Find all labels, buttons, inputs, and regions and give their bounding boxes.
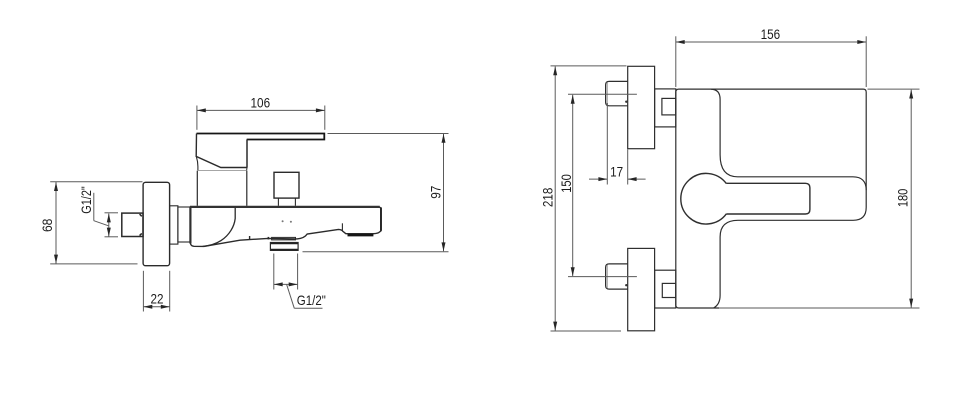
dimensions of left view: [50, 106, 448, 312]
svg-text:150: 150: [558, 174, 574, 193]
dim 68 extension lines: [50, 181, 142, 183]
dim 218 extension lines: [551, 65, 627, 67]
dim 150 line: [572, 95, 574, 276]
outlet G1/2 dim extension lines: [273, 254, 275, 290]
svg-text:G1/2": G1/2": [297, 292, 326, 308]
top eccentric union: [606, 81, 628, 105]
spout body top edge (thick): [190, 206, 380, 208]
handle cap circle (front view): [681, 173, 727, 224]
body inner contour (panel edge): [711, 89, 866, 190]
body shell seam curve: [203, 208, 236, 247]
body seam tick: [267, 237, 269, 240]
dim 22 line: [143, 306, 169, 308]
svg-text:218: 218: [539, 188, 555, 208]
dim 218 line: [554, 66, 556, 330]
inlet G1/2 leader: [94, 221, 109, 226]
svg-text:97: 97: [428, 185, 444, 198]
faucet body outline (front view): [676, 89, 866, 308]
diverter knob: [274, 172, 299, 198]
cartridge collar sides: [196, 171, 198, 206]
svg-text:180: 180: [894, 188, 910, 207]
spout body outline: [190, 207, 381, 247]
bottom wall flange (front view): [628, 248, 655, 330]
outlet G1/2 leader: [287, 284, 295, 308]
spout lip inner edge tick: [341, 223, 343, 231]
dim 22 extension lines: [142, 271, 144, 312]
dimensions of right view: [551, 36, 920, 331]
inlet G1/2 dim extension lines: [105, 212, 119, 214]
detail dots on body: [282, 220, 284, 222]
aerator slot (thick): [348, 234, 374, 237]
handle lever bar (front view): [726, 183, 810, 214]
lever handle (side view, thick): [197, 134, 325, 140]
svg-text:17: 17: [610, 163, 623, 179]
inlet square corner ticks: [140, 214, 142, 216]
svg-text:156: 156: [761, 26, 781, 42]
bottom adapter block: [655, 270, 676, 308]
top supply centerline: [568, 93, 637, 95]
top wall flange (front view): [628, 66, 655, 148]
bottom supply centerline: [568, 276, 637, 278]
inlet G1/2 label underline: [93, 193, 95, 221]
top eccentric detail dot: [625, 101, 627, 103]
seam tick: [249, 236, 251, 240]
cartridge collar top (light): [197, 170, 246, 172]
top adapter block: [655, 89, 676, 127]
svg-text:106: 106: [251, 94, 271, 110]
dim 106 extension lines: [196, 106, 198, 130]
pipe segment 1: [170, 206, 178, 244]
pipe segment 2: [178, 207, 191, 242]
dim 180 extension lines: [868, 88, 920, 90]
dim 180 line: [910, 90, 912, 308]
inlet G1/2 dim line: [108, 214, 110, 237]
outlet G1/2 dim line: [274, 283, 298, 285]
diverter knob neck: [277, 198, 279, 206]
outlet G1/2 label underline: [294, 307, 322, 309]
svg-text:22: 22: [151, 291, 164, 307]
dim 97 line: [443, 134, 445, 251]
svg-text:68: 68: [39, 218, 55, 232]
bottom adapter nut square: [662, 283, 676, 297]
spout body left edge (thick): [189, 206, 191, 243]
dim 156 extension lines: [675, 36, 677, 87]
bottom eccentric detail dot: [625, 284, 627, 286]
inlet square G1/2 (side view): [122, 213, 143, 236]
svg-text:G1/2": G1/2": [78, 186, 94, 214]
dim 68 line: [55, 182, 57, 263]
bottom eccentric shading edge: [606, 265, 608, 288]
dim 97 extension lines: [328, 133, 449, 135]
dim 17 extension lines: [606, 103, 608, 185]
handle chamfer tick: [246, 168, 248, 171]
wall flange (side view): [143, 182, 170, 265]
top adapter nut square: [662, 98, 676, 115]
dim 156 line: [676, 41, 866, 43]
bottom eccentric union: [606, 264, 628, 289]
handle body left edge, diagonal and bottom: [196, 134, 247, 168]
dim 106 line: [197, 109, 325, 111]
spout body right edge (thick): [380, 207, 382, 230]
handle skirt curve: [196, 157, 198, 171]
handle body right edge: [246, 140, 248, 168]
shower outlet washer: [272, 237, 296, 240]
dim 17 line right: [628, 178, 646, 180]
dim 17 line left: [589, 178, 607, 180]
top eccentric shading edge: [606, 83, 608, 105]
shower outlet ring: [270, 243, 298, 251]
